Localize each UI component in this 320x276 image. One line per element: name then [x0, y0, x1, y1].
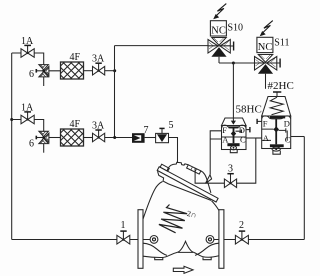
- solenoid valve S11: [255, 21, 281, 89]
- wire 6 to filter row2: [49, 137, 61, 139]
- seat: [177, 241, 194, 252]
- svg-text:#2HC: #2HC: [268, 80, 294, 92]
- wire S10 to S11: [219, 62, 255, 64]
- svg-text:4F: 4F: [70, 52, 81, 63]
- svg-text:NC: NC: [211, 25, 226, 36]
- pilot valve #2HC: [257, 80, 294, 154]
- wire 5 to main valve cover: [169, 138, 178, 163]
- wire 1A to cross valve 6 row2: [12, 120, 44, 132]
- D port plug: [246, 129, 250, 131]
- wire node to pilot 58HC: [232, 63, 234, 118]
- main valve body: [138, 182, 224, 269]
- wire 7 to 5: [145, 137, 156, 139]
- flow arrow: [173, 266, 193, 273]
- svg-text:6: 6: [29, 69, 34, 80]
- node row1 junction: [113, 69, 116, 72]
- wire bottom pipe: [12, 239, 305, 241]
- svg-text:4F: 4F: [70, 119, 81, 130]
- bonnet dome: [167, 162, 188, 171]
- wire riser node to solenoid line: [114, 46, 116, 138]
- valve 3A (row 2): [93, 130, 105, 142]
- svg-text:6: 6: [29, 139, 34, 150]
- node row2 junction: [113, 136, 116, 139]
- wire 58HC F/A ports down to cover: [210, 131, 221, 175]
- valve 3: [224, 174, 236, 188]
- filter 4F (row 2): [61, 129, 84, 146]
- svg-text:D: D: [284, 118, 290, 128]
- bottom edge: [143, 252, 219, 257]
- body right neck: [212, 201, 219, 211]
- svg-text:F: F: [263, 118, 268, 128]
- svg-text:3A: 3A: [92, 121, 105, 132]
- body waist left: [143, 243, 167, 255]
- wire 1A to cross valve 6 row1: [12, 53, 44, 65]
- F port plug: [257, 120, 262, 122]
- valve 1A (row 1): [21, 45, 34, 57]
- feet: [155, 257, 212, 260]
- node 58HC tee: [232, 62, 235, 65]
- spring: [159, 205, 187, 233]
- wire #2HC A to node: [256, 137, 262, 139]
- lightning bolt S10: [217, 4, 227, 16]
- wire right vertical: [303, 137, 305, 240]
- lightning bolt S11: [263, 21, 273, 33]
- svg-text:C: C: [240, 135, 246, 145]
- body waist right: [195, 243, 219, 255]
- body left neck: [143, 182, 162, 219]
- svg-text:1A: 1A: [21, 103, 34, 114]
- svg-text:A: A: [263, 133, 270, 143]
- bolt circle left: [150, 236, 158, 244]
- valve 1A (row 2): [21, 112, 34, 124]
- bolt circle right: [206, 236, 214, 244]
- wire filter to 3A row2: [84, 137, 93, 139]
- wire #2HC C to outlet riser: [291, 136, 305, 138]
- bonnet lower flange steps: [158, 171, 212, 200]
- svg-text:A: A: [222, 135, 229, 145]
- svg-text:3A: 3A: [92, 54, 105, 65]
- wire 6 to filter row1: [49, 70, 61, 72]
- valve 3A (row 1): [93, 63, 105, 75]
- svg-text:1A: 1A: [21, 36, 34, 47]
- svg-text:5: 5: [169, 120, 174, 131]
- cross valve 6 (row 2): [36, 131, 49, 152]
- bonnet flange bar: [157, 167, 218, 202]
- pilot valve 58HC: [222, 118, 250, 153]
- bonnet top cap: [187, 165, 201, 174]
- wire 58HC C to #2HC A node: [246, 137, 262, 139]
- bonnet upper left tab: [160, 164, 169, 171]
- wire left vertical main: [11, 53, 13, 240]
- svg-text:S10: S10: [228, 23, 244, 34]
- valve 5: [156, 128, 169, 142]
- right flange: [219, 210, 224, 269]
- svg-text:7: 7: [144, 125, 149, 136]
- valve 2: [235, 231, 248, 244]
- valve 1: [117, 231, 130, 244]
- wire filter to 3A row1: [84, 70, 93, 72]
- svg-text:2∩: 2∩: [186, 209, 197, 220]
- wire 3A to node row2: [105, 137, 132, 139]
- svg-text:C: C: [285, 135, 291, 145]
- node left junction row2: [10, 118, 13, 121]
- svg-text:NC: NC: [258, 42, 273, 53]
- wire 3A to node row1: [105, 70, 115, 72]
- svg-text:2: 2: [239, 220, 244, 231]
- svg-text:1: 1: [121, 220, 126, 231]
- svg-text:3: 3: [228, 164, 233, 175]
- cross valve 6 (row 1): [36, 65, 49, 86]
- check valve 7: [132, 133, 145, 143]
- svg-text:F: F: [222, 125, 227, 135]
- svg-text:S11: S11: [274, 38, 289, 49]
- solenoid valve S10: [208, 4, 234, 63]
- filter 4F (row 1): [61, 62, 84, 79]
- bonnet dome right side: [201, 171, 211, 193]
- arrow into main valve cover: [206, 175, 212, 184]
- svg-text:58HC: 58HC: [236, 104, 262, 116]
- svg-text:D: D: [239, 125, 245, 135]
- left flange: [138, 210, 143, 269]
- wire cover to valve 3 line: [195, 138, 256, 183]
